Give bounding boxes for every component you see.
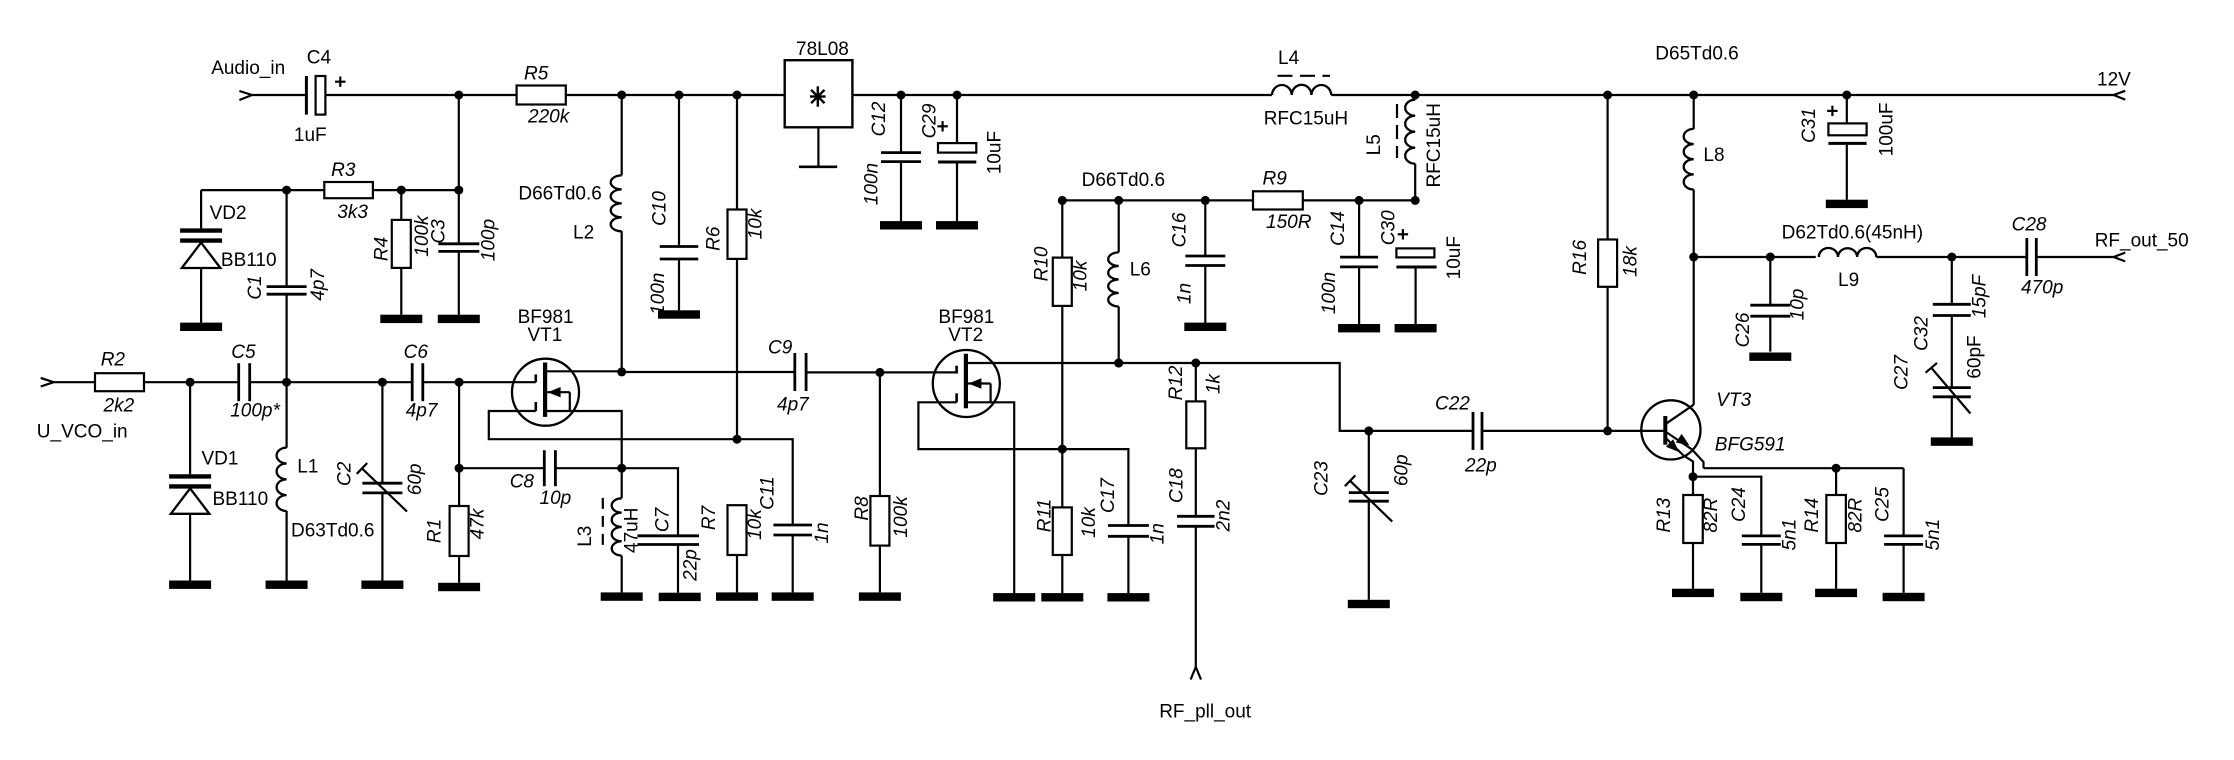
node row/C32 xyxy=(1947,253,1956,262)
svg-text:VT1: VT1 xyxy=(528,325,563,346)
ground L3 xyxy=(601,592,643,600)
variable capacitor C2 60p xyxy=(381,382,383,483)
wire R2 to C5 xyxy=(144,381,239,383)
node rail/C29 xyxy=(953,91,962,100)
capacitor C31 100uF (electrolytic) xyxy=(1846,95,1848,123)
svg-text:BFG591: BFG591 xyxy=(1715,435,1786,456)
capacitor C4 1uF (electrolytic) xyxy=(305,76,308,115)
svg-text:VT3: VT3 xyxy=(1716,390,1751,411)
capacitor C12 100n xyxy=(900,95,902,153)
svg-text:5n1: 5n1 xyxy=(1779,519,1800,551)
svg-text:100p: 100p xyxy=(478,219,499,261)
svg-text:C23: C23 xyxy=(1312,461,1333,496)
node drain/R12 xyxy=(1191,359,1200,368)
wire emitter2 to C25 xyxy=(1704,467,1904,469)
capacitor C18 2n2 xyxy=(1177,515,1215,518)
resistor R12 1k xyxy=(1195,363,1197,401)
capacitor C8 10p xyxy=(543,450,546,486)
svg-text:470p: 470p xyxy=(2021,278,2063,299)
capacitor C9 4p7 xyxy=(793,353,796,391)
node rail/C10 xyxy=(675,91,684,100)
resistor R1 47k xyxy=(458,468,460,506)
node C22/C23 xyxy=(1364,426,1373,435)
ground C30 xyxy=(1395,324,1437,332)
svg-text:C6: C6 xyxy=(404,342,429,363)
svg-text:R16: R16 xyxy=(1570,240,1591,275)
ground C24 xyxy=(1740,593,1782,601)
svg-text:220k: 220k xyxy=(527,106,571,127)
resistor R9 150R xyxy=(1253,191,1303,209)
svg-text:22p: 22p xyxy=(681,549,702,582)
ground 78L08 pin xyxy=(817,127,819,166)
svg-text:60p: 60p xyxy=(1392,454,1413,486)
ground C31 xyxy=(1826,200,1868,208)
svg-text:78L08: 78L08 xyxy=(796,39,849,60)
capacitor C7 22p xyxy=(637,534,699,537)
svg-text:15pF: 15pF xyxy=(1970,273,1991,318)
node row/R1 xyxy=(455,378,464,387)
svg-text:47k: 47k xyxy=(468,507,489,539)
svg-text:10uF: 10uF xyxy=(985,131,1006,174)
capacitor C6 4p7 xyxy=(411,363,414,401)
capacitor C14 100n xyxy=(1358,200,1360,257)
svg-text:L4: L4 xyxy=(1278,48,1300,69)
svg-text:R7: R7 xyxy=(699,504,720,530)
wire C28 to RF_out_50 xyxy=(2036,256,2113,258)
svg-text:10uF: 10uF xyxy=(1444,236,1465,279)
svg-text:100p*: 100p* xyxy=(230,401,280,422)
svg-text:D66Td0.6: D66Td0.6 xyxy=(1082,170,1165,191)
capacitor C3 100p xyxy=(458,190,460,244)
svg-text:10k: 10k xyxy=(1079,506,1100,538)
svg-text:U_VCO_in: U_VCO_in xyxy=(37,422,128,443)
svg-text:D63Td0.6: D63Td0.6 xyxy=(291,521,374,542)
terminal 12V xyxy=(2114,91,2126,95)
node R3-row/C1 xyxy=(282,186,291,195)
wire VT1 gate2 loop xyxy=(489,411,793,525)
svg-text:1n: 1n xyxy=(1175,283,1196,304)
wire R9 to L5/C30 xyxy=(1303,199,1415,201)
wire L2 column xyxy=(621,95,623,175)
svg-text:4p7: 4p7 xyxy=(308,268,329,301)
svg-text:1n: 1n xyxy=(1148,523,1169,544)
node row/VD1 xyxy=(186,378,195,387)
capacitor C30 10uF (electrolytic) xyxy=(1396,248,1434,257)
capacitor C28 470p xyxy=(2025,238,2028,276)
svg-text:22p: 22p xyxy=(1464,456,1497,477)
ground R4 xyxy=(380,315,422,323)
svg-text:R1: R1 xyxy=(425,519,446,543)
svg-text:R14: R14 xyxy=(1802,498,1823,533)
svg-text:RFC15uH: RFC15uH xyxy=(1264,109,1348,130)
wire C8 to C7 xyxy=(555,468,678,536)
resistor R2 2k2 xyxy=(95,373,144,391)
resistor R4 100k xyxy=(400,190,402,220)
wire VT2 drain to C22 row xyxy=(966,363,1473,431)
svg-text:L3: L3 xyxy=(575,526,596,547)
svg-text:RF_pll_out: RF_pll_out xyxy=(1159,702,1252,723)
inductor L9 D62Td0.6(45nH) xyxy=(1819,248,1877,257)
node row3/L5/C30 xyxy=(1411,196,1420,205)
svg-text:R12: R12 xyxy=(1166,365,1187,400)
resistor R16 18k xyxy=(1606,95,1608,240)
svg-text:L2: L2 xyxy=(573,223,594,244)
wire rail to R3 row xyxy=(458,95,460,190)
node rail/L8 xyxy=(1689,91,1698,100)
svg-text:RF_out_50: RF_out_50 xyxy=(2095,231,2189,252)
svg-text:60p: 60p xyxy=(405,464,426,496)
svg-text:BB110: BB110 xyxy=(213,489,269,510)
svg-text:R5: R5 xyxy=(524,64,549,85)
svg-text:VD1: VD1 xyxy=(202,449,239,470)
svg-text:RFC15uH: RFC15uH xyxy=(1424,103,1445,187)
capacitor C1 4p7 xyxy=(286,190,288,287)
svg-text:C14: C14 xyxy=(1328,211,1349,246)
transistor VT3 BFG591 xyxy=(1641,400,1700,459)
ground C2 xyxy=(361,581,403,589)
ground R13 xyxy=(1672,589,1714,597)
svg-text:4p7: 4p7 xyxy=(777,395,810,416)
svg-text:C24: C24 xyxy=(1729,487,1750,522)
resistor R6 10k xyxy=(736,95,738,210)
svg-text:82R: 82R xyxy=(1701,497,1722,532)
wire 78L08 to L4 xyxy=(852,94,1272,96)
svg-text:10k: 10k xyxy=(746,207,767,239)
ground C29 xyxy=(936,221,978,229)
svg-text:C5: C5 xyxy=(231,342,256,363)
svg-text:D62Td0.6(45nH): D62Td0.6(45nH) xyxy=(1782,223,1924,244)
ground VD1 xyxy=(169,581,211,589)
svg-text:10k: 10k xyxy=(1071,259,1092,291)
node rail/C31 xyxy=(1842,91,1851,100)
resistor R8 100k xyxy=(879,372,881,496)
resistor R7 10k xyxy=(728,505,747,555)
node base/R16 xyxy=(1603,426,1612,435)
svg-text:C30: C30 xyxy=(1379,210,1400,245)
node row3/R10 xyxy=(1058,196,1067,205)
regulator U1 78L08 xyxy=(785,60,853,127)
svg-text:R3: R3 xyxy=(331,160,356,181)
svg-text:18k: 18k xyxy=(1621,245,1642,277)
node R3-row/C3 xyxy=(454,186,463,195)
ground C27 xyxy=(1931,437,1973,445)
svg-text:C11: C11 xyxy=(758,476,779,509)
svg-text:1uF: 1uF xyxy=(294,125,327,146)
node VT1 source/C8/L3 xyxy=(617,464,626,473)
svg-text:4p7: 4p7 xyxy=(406,401,439,422)
ground C11 xyxy=(772,592,814,600)
wire C6 to VT1 gate1 xyxy=(423,381,536,383)
ground R11 xyxy=(1041,593,1083,601)
node rail/C12 xyxy=(897,91,906,100)
wire R1 column xyxy=(458,382,460,468)
ground VT2 source xyxy=(993,593,1035,601)
inductor L5 RFC15uH xyxy=(1414,95,1416,100)
wire C9 to VT2 gate1 xyxy=(806,371,957,373)
ground R14 xyxy=(1815,589,1857,597)
terminal RF_out_50 xyxy=(2114,253,2126,257)
node R3-row/R4 xyxy=(397,186,406,195)
svg-text:C8: C8 xyxy=(510,472,535,493)
variable capacitor C23 60p xyxy=(1368,431,1370,493)
svg-text:R13: R13 xyxy=(1654,497,1675,532)
node row3/L6 xyxy=(1114,196,1123,205)
ground C12 xyxy=(880,221,922,229)
wire VT2 source xyxy=(966,402,1014,593)
svg-text:L5: L5 xyxy=(1364,134,1385,155)
wire emitter1 to C24 xyxy=(1693,477,1761,536)
ground R8 xyxy=(859,592,901,600)
terminal RF_pll_out xyxy=(1191,667,1196,680)
svg-text:C22: C22 xyxy=(1435,394,1470,415)
node rail/L2 xyxy=(617,91,626,100)
node collector/L8 xyxy=(1689,253,1698,262)
wire D66 row xyxy=(1062,199,1253,201)
capacitor C17 1n xyxy=(1108,524,1149,527)
svg-text:10k: 10k xyxy=(745,508,766,540)
wire C8 node xyxy=(459,467,544,469)
capacitor C10 100n xyxy=(678,95,680,247)
node C9/R8 xyxy=(875,368,884,377)
capacitor C29 10uF (electrolytic) xyxy=(956,95,958,143)
wire VT1 source xyxy=(545,411,622,468)
resistor R11 10k xyxy=(1061,449,1063,507)
svg-text:D65Td0.6: D65Td0.6 xyxy=(1655,44,1738,65)
wire Audio_in to C4 xyxy=(252,94,306,96)
inductor L3 47uH xyxy=(621,468,623,498)
svg-text:R6: R6 xyxy=(704,226,725,251)
wire L9 row xyxy=(1694,256,1816,258)
svg-text:100uF: 100uF xyxy=(1877,102,1898,156)
svg-text:C32: C32 xyxy=(1912,316,1933,351)
ground C10 xyxy=(658,310,700,318)
resistor R10 10k xyxy=(1061,200,1063,257)
svg-text:VD2: VD2 xyxy=(210,203,247,224)
wire L2 to VT1 drain xyxy=(621,231,623,372)
node R1/C8 xyxy=(455,464,464,473)
node loop/R6-R7 xyxy=(733,435,742,444)
svg-text:L1: L1 xyxy=(297,457,318,478)
svg-text:5n1: 5n1 xyxy=(1923,519,1944,551)
capacitor C32 15pF xyxy=(1951,257,1953,304)
node loop/R10-R11 xyxy=(1058,445,1067,454)
svg-text:VT2: VT2 xyxy=(948,325,983,346)
svg-text:C25: C25 xyxy=(1872,487,1893,522)
svg-text:C1: C1 xyxy=(245,275,266,299)
ground R1 xyxy=(438,583,480,591)
ground C3 xyxy=(438,315,480,323)
svg-text:C26: C26 xyxy=(1733,312,1754,347)
svg-text:82R: 82R xyxy=(1846,497,1867,532)
capacitor C22 22p xyxy=(1472,412,1475,450)
inductor L8 xyxy=(1693,95,1695,129)
ground R7 xyxy=(716,592,758,600)
svg-text:C31: C31 xyxy=(1799,108,1820,143)
wire VD2 to R3 xyxy=(201,189,324,191)
varicap VD1 BB110 xyxy=(189,382,191,474)
svg-text:R10: R10 xyxy=(1032,246,1053,281)
svg-text:100n: 100n xyxy=(1319,272,1340,314)
svg-text:L9: L9 xyxy=(1838,270,1859,291)
node row3/C14 xyxy=(1355,196,1364,205)
node drain/L6 xyxy=(1114,359,1123,368)
svg-text:12V: 12V xyxy=(2097,70,2131,91)
svg-text:10p: 10p xyxy=(540,488,572,509)
inductor L1 xyxy=(286,382,288,447)
transistor VT2 BF981 (dual-gate MOSFET) xyxy=(933,350,1000,417)
svg-text:1n: 1n xyxy=(812,522,833,543)
svg-text:C10: C10 xyxy=(650,191,671,226)
svg-text:C27: C27 xyxy=(1892,354,1913,390)
ground C25 xyxy=(1883,593,1925,601)
svg-text:R2: R2 xyxy=(101,350,126,371)
wire L9 to C28 xyxy=(1876,256,2027,258)
ground C26 xyxy=(1749,353,1791,361)
svg-text:L8: L8 xyxy=(1703,145,1724,166)
svg-text:L6: L6 xyxy=(1130,260,1151,281)
svg-text:C29: C29 xyxy=(919,103,940,138)
terminal Audio_in xyxy=(239,91,252,95)
svg-text:47uH: 47uH xyxy=(622,508,643,553)
ground C14 xyxy=(1338,324,1380,332)
svg-text:1k: 1k xyxy=(1204,372,1225,394)
node row3/C16 xyxy=(1201,196,1210,205)
wire R5 to 78L08 xyxy=(566,94,785,96)
svg-text:100k: 100k xyxy=(891,495,912,538)
svg-text:C18: C18 xyxy=(1167,468,1188,503)
svg-text:C16: C16 xyxy=(1170,212,1191,247)
wire R3 to C3 column xyxy=(373,189,459,191)
node rail/R3-column xyxy=(454,91,463,100)
node row/L1 xyxy=(282,378,291,387)
capacitor C25 5n1 xyxy=(1902,468,1904,536)
svg-text:C17: C17 xyxy=(1098,477,1119,513)
node rail/R6 xyxy=(733,91,742,100)
svg-text:10p: 10p xyxy=(1788,289,1809,321)
wire VT2 gate2 loop xyxy=(918,402,1128,525)
inductor L4 RFC15uH xyxy=(1272,85,1331,95)
node row/C2 xyxy=(378,378,387,387)
svg-text:3k3: 3k3 xyxy=(337,202,368,223)
wire L4 to 12V terminal xyxy=(1331,94,2113,96)
ground C23 xyxy=(1348,600,1390,608)
svg-text:C3: C3 xyxy=(429,219,450,244)
resistor R13 82R xyxy=(1692,477,1694,495)
ground C17 xyxy=(1107,593,1149,601)
svg-text:D66Td0.6: D66Td0.6 xyxy=(518,184,601,205)
svg-text:C2: C2 xyxy=(335,461,356,486)
resistor R14 82R xyxy=(1835,468,1837,495)
node emitter2/R14 xyxy=(1832,464,1841,473)
wire U_VCO_in to R2 xyxy=(54,381,95,383)
node VT1 drain xyxy=(617,367,626,376)
capacitor C5 100p* xyxy=(237,363,240,401)
svg-text:2n2: 2n2 xyxy=(1213,499,1234,532)
svg-text:R4: R4 xyxy=(371,237,392,261)
capacitor C16 1n xyxy=(1204,200,1206,256)
capacitor C11 1n xyxy=(773,524,812,527)
wire VT1 drain lead xyxy=(545,370,622,372)
wire C5 to C6 xyxy=(250,381,413,383)
terminal U_VCO_in xyxy=(41,378,54,382)
variable capacitor C27 60pF xyxy=(1933,386,1971,389)
inductor L6 xyxy=(1118,200,1120,252)
svg-text:60pF: 60pF xyxy=(1965,335,1986,378)
capacitor C26 10p xyxy=(1769,257,1771,305)
node rail/R16 xyxy=(1603,91,1612,100)
wire VT3 collector xyxy=(1693,257,1695,405)
svg-text:BB110: BB110 xyxy=(221,250,277,271)
resistor R5 220k xyxy=(517,86,566,105)
ground C16 xyxy=(1184,323,1226,331)
wire VT1 drain to C9 xyxy=(622,371,795,373)
node rail/L5 xyxy=(1411,91,1420,100)
ground C7 xyxy=(659,593,701,601)
svg-text:C9: C9 xyxy=(768,338,793,359)
svg-text:C4: C4 xyxy=(307,48,332,69)
svg-text:R11: R11 xyxy=(1035,499,1056,532)
resistor R3 3k3 xyxy=(324,182,373,198)
ground VD2 xyxy=(180,323,222,331)
svg-text:R9: R9 xyxy=(1263,169,1288,190)
wire C22 to VT3 base xyxy=(1482,430,1665,432)
svg-text:C28: C28 xyxy=(2012,215,2047,236)
transistor VT1 BF981 (dual-gate MOSFET) xyxy=(512,359,579,426)
svg-text:150R: 150R xyxy=(1266,212,1312,233)
ground L1 xyxy=(266,581,308,589)
node L6/VT2 drain xyxy=(1114,359,1123,368)
svg-text:100n: 100n xyxy=(648,273,669,315)
node row/C26 xyxy=(1766,253,1775,262)
inductor L2 xyxy=(611,175,622,231)
svg-text:C7: C7 xyxy=(653,506,674,532)
varicap VD2 BB110 xyxy=(200,190,202,228)
svg-text:R8: R8 xyxy=(852,496,873,521)
wire C4 to R5 xyxy=(325,94,516,96)
svg-text:100n: 100n xyxy=(862,163,883,205)
svg-text:2k2: 2k2 xyxy=(103,396,135,417)
svg-text:C12: C12 xyxy=(869,101,890,136)
svg-text:Audio_in: Audio_in xyxy=(211,58,285,79)
capacitor C24 5n1 xyxy=(1742,535,1781,538)
node VT3 emitter1 xyxy=(1689,472,1698,481)
